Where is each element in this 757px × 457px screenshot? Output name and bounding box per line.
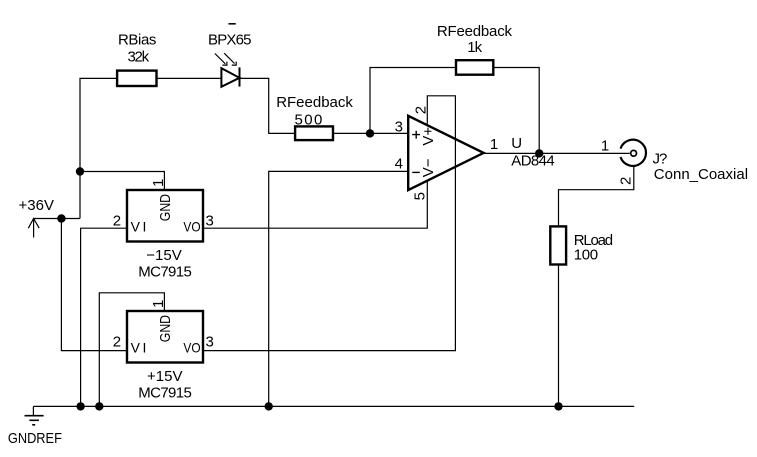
- svg-text:MC7915: MC7915: [138, 263, 191, 280]
- svg-text:1k: 1k: [467, 39, 482, 56]
- svg-text:2: 2: [413, 106, 430, 114]
- svg-text:GNDREF: GNDREF: [8, 430, 62, 447]
- svg-text:AD844: AD844: [511, 153, 554, 170]
- svg-text:GND: GND: [157, 315, 174, 342]
- svg-text:BPX65: BPX65: [208, 32, 251, 49]
- svg-text:V−: V−: [420, 158, 437, 177]
- svg-text:RFeedback: RFeedback: [276, 94, 353, 111]
- svg-text:3: 3: [206, 213, 214, 230]
- svg-text:1: 1: [150, 179, 167, 187]
- svg-text:Conn_Coaxial: Conn_Coaxial: [654, 166, 748, 183]
- svg-text:RBias: RBias: [118, 32, 156, 49]
- svg-text:100: 100: [574, 247, 598, 264]
- svg-text:2: 2: [113, 213, 121, 230]
- svg-text:VI: VI: [131, 219, 149, 235]
- svg-text:−15V: −15V: [146, 247, 181, 264]
- svg-text:3: 3: [206, 334, 214, 351]
- svg-text:MC7915: MC7915: [138, 384, 191, 401]
- svg-text:VO: VO: [183, 340, 200, 356]
- svg-text:4: 4: [395, 156, 403, 173]
- svg-text:VO: VO: [183, 219, 200, 235]
- svg-text:+36V: +36V: [19, 197, 54, 214]
- svg-text:500: 500: [295, 111, 324, 128]
- svg-text:V+: V+: [420, 127, 437, 146]
- svg-text:2: 2: [618, 177, 635, 185]
- svg-text:2: 2: [113, 334, 121, 351]
- svg-text:U: U: [511, 135, 522, 152]
- svg-text:RFeedback: RFeedback: [437, 23, 513, 40]
- svg-text:1: 1: [601, 138, 609, 155]
- svg-text:3: 3: [395, 118, 403, 135]
- svg-text:5: 5: [412, 192, 429, 200]
- svg-text:+15V: +15V: [147, 368, 182, 385]
- svg-text:1: 1: [490, 136, 498, 153]
- svg-text:VI: VI: [131, 340, 149, 356]
- svg-text:1: 1: [150, 300, 167, 308]
- svg-text:J?: J?: [653, 151, 668, 168]
- svg-text:GND: GND: [157, 194, 174, 221]
- svg-text:32k: 32k: [128, 48, 150, 65]
